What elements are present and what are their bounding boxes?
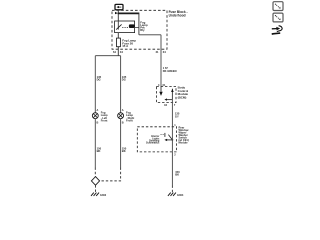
svg-text:BK: BK: [97, 149, 101, 153]
svg-text:(BCM): (BCM): [178, 95, 187, 99]
wire: feed bus: [118, 12, 140, 14]
svg-text:Underhood: Underhood: [169, 13, 186, 17]
wire: dashed to splice (left): [94, 168, 96, 177]
arrow to schematics: [167, 139, 172, 141]
svg-text:BK: BK: [122, 149, 126, 153]
BCM driver input arrow: [160, 86, 162, 91]
svg-text:X4: X4: [120, 50, 124, 54]
svg-text:Rly: Rly: [140, 28, 145, 32]
splice diamond: [91, 177, 99, 186]
wire: coil feed drop: [138, 13, 140, 34]
power reference box (battery positive voltage): [115, 4, 123, 9]
svg-text:B: B: [97, 122, 99, 125]
wire: branch to both fog lamps: [95, 55, 120, 57]
BCM internal output element: [171, 89, 173, 100]
svg-text:7: 7: [174, 104, 176, 107]
svg-text:Front: Front: [101, 119, 108, 123]
svg-text:A: A: [122, 109, 124, 112]
lamp: fog lamp left front: [92, 113, 98, 119]
fuse FOG LAMP 15A: [117, 38, 121, 47]
switch blade: [168, 135, 172, 140]
svg-text:21: 21: [156, 50, 159, 54]
relay contact dashed link: [122, 26, 128, 28]
wire: switch to ground: [171, 152, 173, 186]
toolbar icon: pan arrow: [272, 26, 283, 35]
headlamp switch dashed box: [137, 127, 176, 152]
wire: relay switch input: [117, 21, 119, 30]
node junction: [172, 139, 174, 141]
wire: dashed splice to ground: [95, 185, 97, 192]
relay coil: [129, 24, 135, 28]
toolbar icon: zoom box 1: [273, 2, 283, 11]
relay switch blade: [116, 24, 121, 29]
svg-text:X4: X4: [163, 50, 167, 54]
wire: dashed to splice (right, L-corner): [100, 168, 121, 181]
svg-text:15 A: 15 A: [122, 44, 129, 48]
svg-text:B: B: [122, 122, 124, 125]
wire: coil control down right side: [160, 35, 162, 87]
wire: BCM output down: [171, 100, 173, 127]
svg-text:DG: DG: [97, 78, 101, 82]
wire: left lamp ground lead: [94, 119, 96, 168]
svg-text:Module: Module: [179, 141, 189, 145]
svg-text:GY: GY: [175, 114, 179, 118]
wire: battery feed into fuse block: [117, 10, 119, 21]
BCM internal horizontal with left arrow: [167, 99, 173, 101]
wire through switch box: [171, 127, 173, 152]
wire: right lamp ground lead: [120, 119, 122, 168]
svg-text:2: 2: [174, 153, 176, 156]
svg-text:A: A: [97, 109, 99, 112]
svg-text:G304: G304: [177, 193, 184, 197]
relay box: [115, 21, 135, 33]
wire: coil output to right: [139, 34, 161, 36]
svg-text:Schematics: Schematics: [146, 142, 160, 145]
svg-text:DG: DG: [122, 78, 126, 82]
ground G302: [91, 193, 99, 196]
lamp: fog lamp right front: [118, 113, 124, 119]
svg-text:X4: X4: [164, 104, 168, 107]
wire: right lamp feed: [120, 56, 122, 113]
body control module dashed box: [156, 86, 176, 102]
wire: left lamp feed: [94, 56, 96, 113]
wire: coil link: [135, 26, 139, 28]
pin arrow at entry: [115, 12, 118, 14]
wire: relay output down through fuse: [117, 33, 119, 56]
toolbar icon: zoom box 2: [273, 13, 283, 22]
svg-text:64: 64: [113, 50, 116, 54]
svg-text:DK GREEN: DK GREEN: [163, 69, 177, 73]
svg-text:1: 1: [174, 124, 176, 127]
svg-text:G302: G302: [100, 194, 107, 197]
svg-text:BK: BK: [175, 173, 179, 177]
ground G304: [168, 193, 176, 196]
svg-text:Front: Front: [126, 119, 133, 123]
switch dashed link and tick: [161, 133, 165, 135]
fuse block - underhood dashed box: [112, 10, 167, 49]
wire: dashed to ground: [171, 186, 173, 193]
